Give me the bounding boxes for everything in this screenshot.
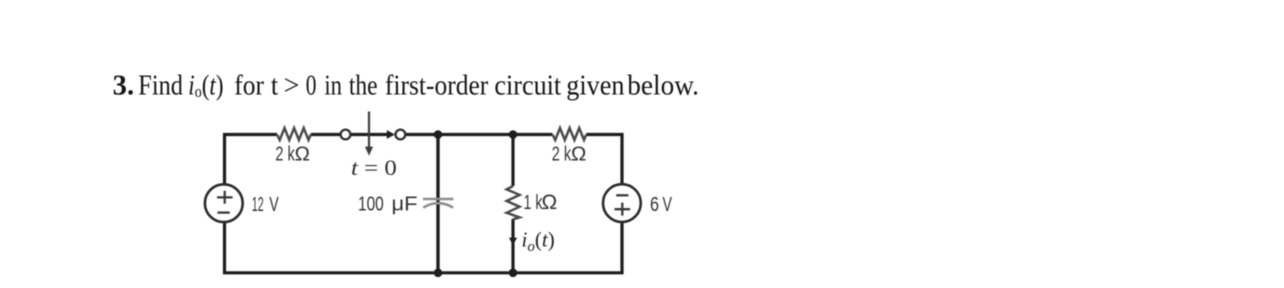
svg-text:V: V <box>269 194 279 216</box>
node B dot top <box>509 130 518 139</box>
wire bottom right <box>513 222 622 273</box>
resistor R3 1k vertical zigzag <box>507 186 520 219</box>
svg-text:Ω: Ω <box>542 191 558 214</box>
svg-text:in: in <box>324 71 342 102</box>
wire: switch to node A <box>406 133 514 136</box>
switch terminal circle left <box>341 130 351 140</box>
capacitor C1 curved bottom plate <box>423 203 453 207</box>
wire top-right: R2 to source <box>586 135 622 185</box>
svg-text:t: t <box>271 71 279 102</box>
node A dot top <box>434 130 443 139</box>
wire left-bottom <box>225 222 439 272</box>
wire: 1k resistor branch bottom <box>511 219 514 273</box>
V2 minus sign <box>616 194 628 196</box>
svg-text:0: 0 <box>306 71 317 102</box>
wire: R1 to switch terminal <box>311 133 341 136</box>
svg-text:2 k: 2 k <box>275 143 295 165</box>
switch t=0 action arrow <box>368 112 370 148</box>
wire: switch arm shaft <box>351 133 388 136</box>
svg-text:1 k: 1 k <box>524 192 544 214</box>
svg-text:100: 100 <box>358 193 384 215</box>
node C dot bottom <box>434 269 443 278</box>
voltage source V2 6V circle <box>603 184 641 222</box>
V1 minus sign <box>217 211 229 213</box>
svg-text:12: 12 <box>252 194 264 216</box>
capacitor C1 top plate <box>423 198 454 201</box>
io(t) current arrow <box>509 238 517 246</box>
svg-text:μF: μF <box>392 193 418 215</box>
svg-text:the: the <box>349 71 378 102</box>
svg-text:t = 0: t = 0 <box>351 155 397 180</box>
svg-text:circuit: circuit <box>494 71 561 102</box>
svg-text:Ω: Ω <box>295 142 310 165</box>
svg-text:below.: below. <box>627 71 699 102</box>
problem statement text <box>113 71 699 102</box>
wire bottom middle <box>438 271 513 274</box>
resistor R2 2k zigzag <box>553 128 587 140</box>
wire: capacitor branch <box>436 135 439 273</box>
switch arm arrowhead <box>387 130 395 139</box>
svg-text:given: given <box>566 71 624 102</box>
svg-text:Find: Find <box>138 71 183 102</box>
resistor R1 2k zigzag <box>277 128 311 140</box>
svg-text:first-order: first-order <box>385 71 489 102</box>
V1 plus sign <box>217 191 233 204</box>
svg-text:3.: 3. <box>113 71 134 102</box>
switch terminal circle right <box>396 130 406 140</box>
voltage source V1 12V circle <box>205 184 243 222</box>
svg-text:6: 6 <box>650 194 659 216</box>
svg-text:V: V <box>663 194 673 216</box>
svg-text:2 k: 2 k <box>552 143 572 165</box>
wire top-left: source to R1 <box>225 135 278 185</box>
node D dot bottom <box>509 269 518 278</box>
svg-text:>: > <box>284 71 300 102</box>
svg-text:for: for <box>234 71 264 102</box>
svg-text:Ω: Ω <box>571 142 586 165</box>
wire: 1k resistor branch top <box>511 135 514 187</box>
wire: node B to R2 <box>513 133 553 136</box>
svg-text:io(t): io(t) <box>188 71 223 102</box>
V2 plus sign <box>615 203 631 216</box>
svg-text:io(t): io(t) <box>522 228 555 256</box>
